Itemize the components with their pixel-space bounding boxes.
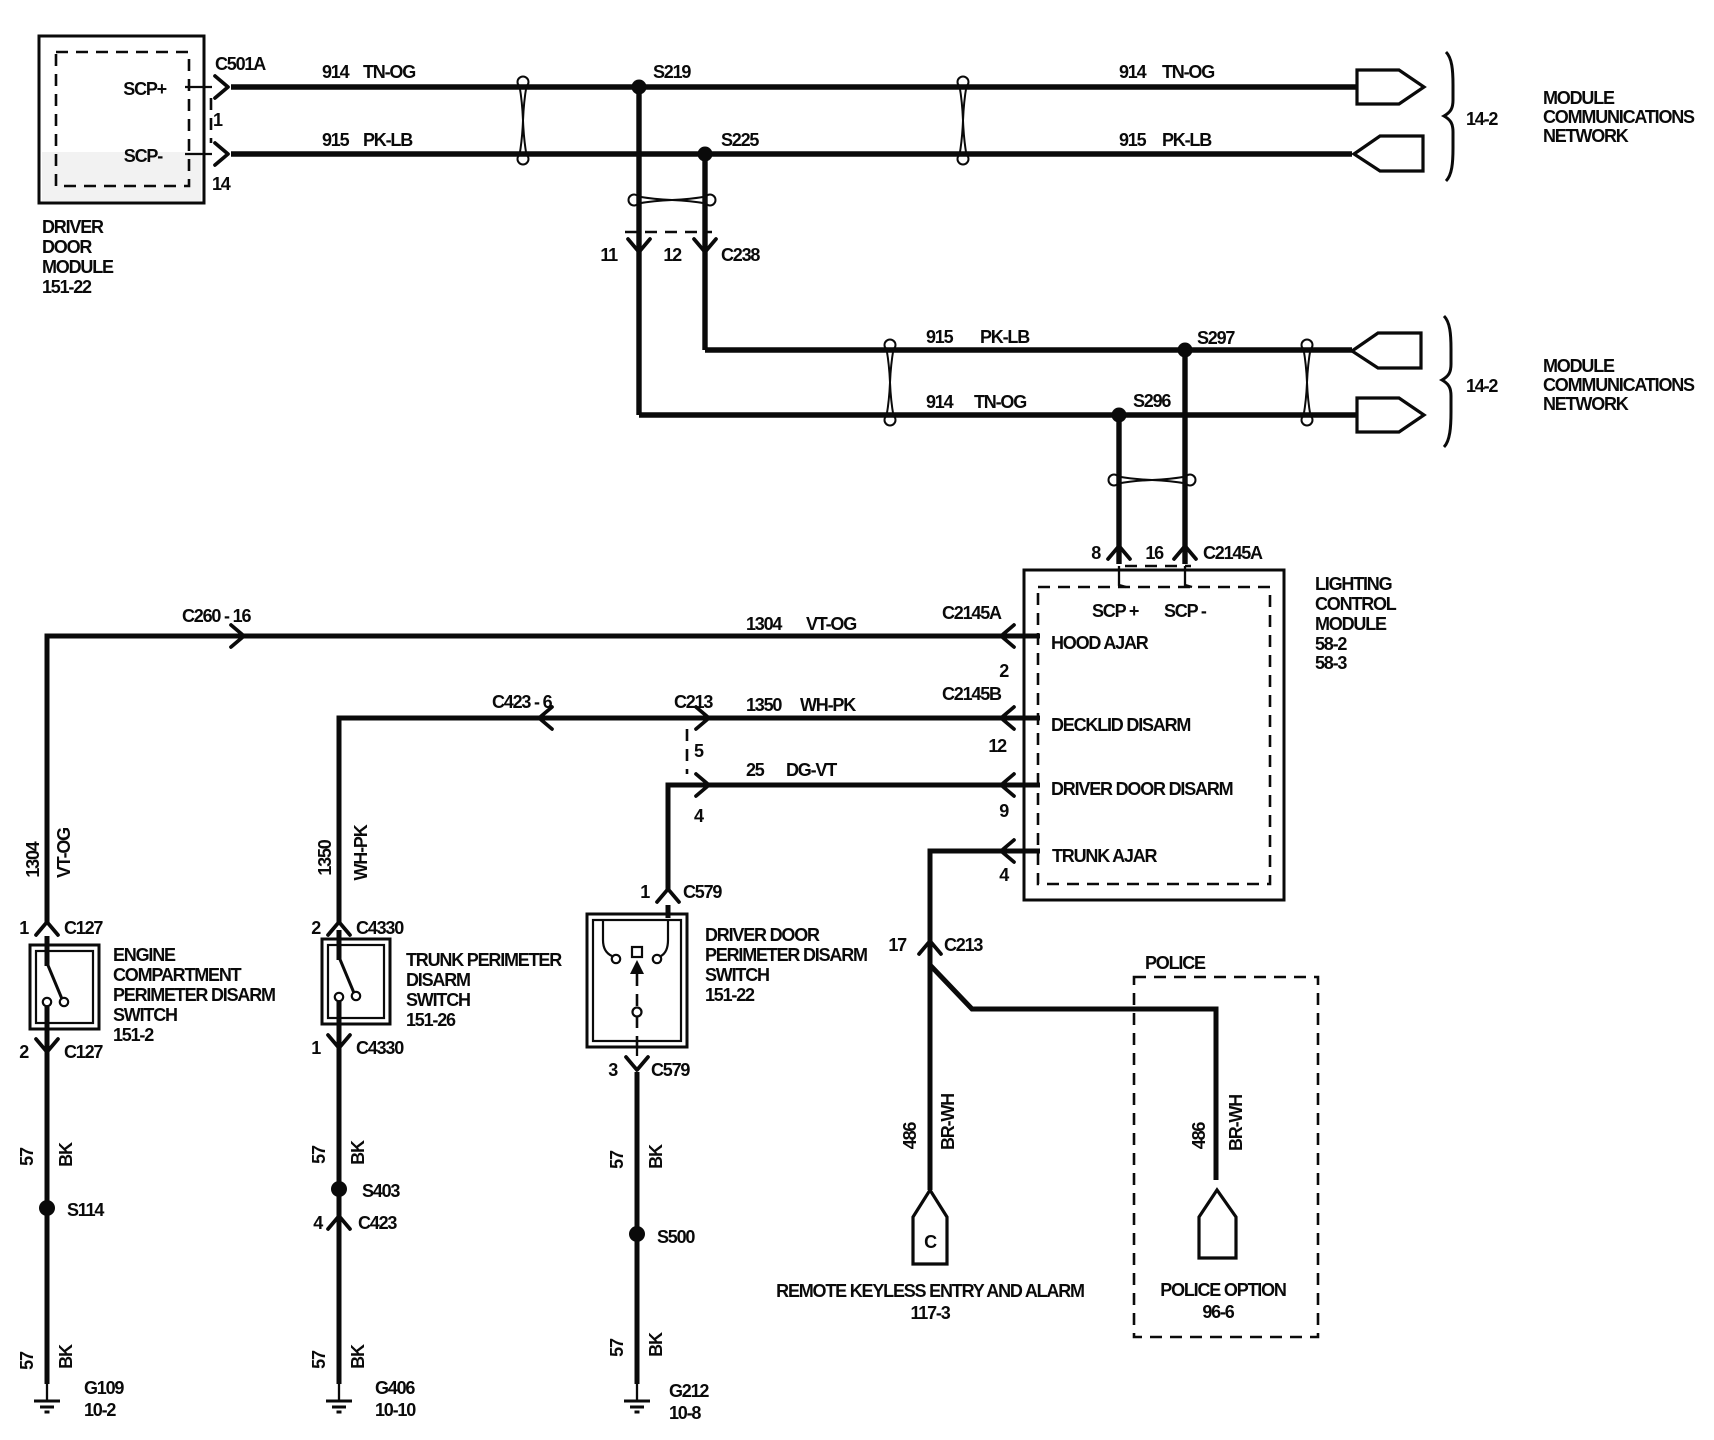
svg-text:HOOD AJAR: HOOD AJAR: [1051, 633, 1149, 653]
svg-text:C2145B: C2145B: [942, 684, 1002, 704]
svg-text:10-8: 10-8: [669, 1403, 701, 1423]
svg-text:PK-LB: PK-LB: [980, 327, 1030, 347]
svg-text:11: 11: [600, 245, 618, 265]
wire S296 down to pin 8: [1116, 415, 1121, 564]
svg-text:14: 14: [212, 174, 231, 194]
module communications network caption top: [1543, 88, 1695, 146]
wire 25 DG-VT: [668, 785, 1040, 891]
module communications network arrow out 914 top: [1357, 70, 1424, 104]
svg-text:915: 915: [1119, 130, 1147, 150]
wire from S219 down: [636, 87, 641, 415]
svg-text:PK-LB: PK-LB: [363, 130, 413, 150]
wire S297 down to pin 16: [1182, 350, 1187, 564]
svg-text:DRIVER: DRIVER: [42, 217, 104, 237]
connector arrow into LCM hood ajar: [1001, 625, 1014, 647]
lighting control module box: [1024, 570, 1284, 900]
driver door switch stem contact: [633, 1008, 642, 1017]
brace top: [1444, 52, 1453, 181]
svg-text:58-3: 58-3: [1315, 653, 1347, 673]
police option caption: [1160, 1280, 1286, 1322]
svg-text:57: 57: [309, 1350, 329, 1369]
splice S219: [632, 80, 647, 95]
connector arrow into LCM decklid: [1001, 707, 1014, 729]
svg-text:SCP -: SCP -: [1164, 601, 1207, 621]
wire 914 TN-OG top: [231, 84, 1357, 89]
svg-text:BR-WH: BR-WH: [938, 1094, 958, 1150]
wire stub SCP-: [185, 153, 212, 155]
svg-text:57: 57: [17, 1147, 37, 1166]
splice S297: [1178, 343, 1193, 358]
svg-text:17: 17: [888, 935, 907, 955]
svg-text:1: 1: [19, 918, 29, 938]
connector arrow C238 pin 11: [628, 239, 650, 252]
driver door module caption: [42, 217, 114, 297]
driver door switch stem to bottom: [636, 1016, 639, 1046]
svg-text:REMOTE KEYLESS ENTRY AND ALARM: REMOTE KEYLESS ENTRY AND ALARM: [776, 1281, 1084, 1301]
svg-text:BR-WH: BR-WH: [1226, 1095, 1246, 1151]
svg-text:BK: BK: [646, 1332, 666, 1357]
driver door switch dashed stem: [636, 974, 639, 1007]
svg-text:WH-PK: WH-PK: [800, 695, 856, 715]
svg-text:S219: S219: [653, 62, 691, 82]
trunk switch caption: [406, 950, 562, 1030]
connector arrow C127 pin 2: [36, 1039, 58, 1052]
connector arrow C213 pin 5: [696, 707, 709, 729]
svg-text:TRUNK PERIMETER: TRUNK PERIMETER: [406, 950, 562, 970]
connector arrow C213 pin 4: [696, 774, 709, 796]
svg-text:1304: 1304: [746, 614, 782, 634]
ground G212: [624, 1384, 650, 1412]
svg-text:PERIMETER DISARM: PERIMETER DISARM: [705, 945, 867, 965]
svg-text:151-22: 151-22: [42, 277, 92, 297]
svg-text:S403: S403: [362, 1181, 400, 1201]
connector C2145A dashed line: [1125, 565, 1191, 568]
svg-text:C213: C213: [944, 935, 983, 955]
svg-text:57: 57: [607, 1150, 627, 1169]
svg-text:BK: BK: [646, 1144, 666, 1169]
svg-text:MODULE: MODULE: [1543, 356, 1615, 376]
svg-text:151-2: 151-2: [113, 1025, 154, 1045]
svg-text:CONTROL: CONTROL: [1315, 594, 1397, 614]
trunk switch column wire top: [337, 930, 342, 960]
connector arrow C4330 pin 2: [328, 922, 350, 935]
svg-text:S296: S296: [1133, 391, 1171, 411]
svg-text:BK: BK: [348, 1140, 368, 1165]
svg-text:WH-PK: WH-PK: [351, 824, 371, 880]
svg-text:DRIVER DOOR DISARM: DRIVER DOOR DISARM: [1051, 779, 1233, 799]
svg-text:914: 914: [1119, 62, 1147, 82]
connector arrow C127 pin 1: [36, 922, 58, 935]
svg-text:1350: 1350: [746, 695, 782, 715]
ground G109: [34, 1384, 60, 1412]
police dashed box: [1134, 977, 1318, 1337]
connector arrow C423 pin 4: [328, 1216, 350, 1229]
svg-text:3: 3: [608, 1060, 618, 1080]
svg-text:9: 9: [999, 801, 1009, 821]
engine switch contact left: [43, 998, 51, 1006]
svg-text:POLICE: POLICE: [1145, 953, 1206, 973]
trunk switch contact left: [335, 993, 343, 1001]
svg-text:SCP+: SCP+: [123, 79, 166, 99]
twisted pair symbol T4: [885, 340, 896, 426]
svg-text:C: C: [924, 1232, 937, 1252]
ground G406: [326, 1384, 352, 1412]
engine compartment perimeter disarm switch box: [30, 945, 99, 1029]
svg-text:14-2: 14-2: [1466, 376, 1498, 396]
svg-text:G212: G212: [669, 1381, 709, 1401]
svg-text:1: 1: [640, 882, 650, 902]
ground G212 label: [669, 1381, 709, 1423]
svg-text:TN-OG: TN-OG: [974, 392, 1026, 412]
brace bottom: [1442, 316, 1451, 447]
svg-text:MODULE: MODULE: [1315, 614, 1387, 634]
svg-text:914: 914: [926, 392, 954, 412]
svg-text:151-26: 151-26: [406, 1010, 456, 1030]
svg-text:C213: C213: [674, 692, 713, 712]
police option pentagon: [1199, 1190, 1236, 1258]
svg-text:C127: C127: [64, 1042, 103, 1062]
svg-text:2: 2: [19, 1042, 29, 1062]
connector arrow C260: [231, 625, 244, 647]
svg-text:S225: S225: [721, 130, 759, 150]
ground G406 label: [375, 1378, 416, 1420]
splice S225: [698, 147, 713, 162]
splice S114: [39, 1200, 55, 1216]
svg-text:BK: BK: [348, 1344, 368, 1369]
svg-text:1: 1: [213, 110, 223, 130]
svg-text:96-6: 96-6: [1202, 1302, 1234, 1322]
svg-text:VT-OG: VT-OG: [54, 828, 74, 878]
engine switch lever: [47, 963, 62, 999]
connector arrow C2145A pin 16: [1174, 546, 1196, 559]
engine switch column wire top: [45, 936, 50, 966]
wire 914 TN-OG lower: [639, 412, 1357, 417]
svg-text:NETWORK: NETWORK: [1543, 394, 1629, 414]
trunk perimeter disarm switch box: [322, 939, 390, 1024]
svg-text:151-22: 151-22: [705, 985, 755, 1005]
svg-text:16: 16: [1145, 543, 1164, 563]
splice S403: [331, 1181, 347, 1197]
driver door module box: [39, 36, 204, 203]
driver door switch right contact: [653, 955, 661, 963]
svg-text:S297: S297: [1197, 328, 1235, 348]
connector arrow C579 pin 3: [626, 1057, 648, 1070]
driver door switch actuator arrow: [630, 960, 644, 974]
connector arrow into LCM trunk ajar: [1001, 840, 1014, 862]
svg-text:2: 2: [999, 661, 1009, 681]
svg-text:TRUNK AJAR: TRUNK AJAR: [1052, 846, 1158, 866]
svg-text:TN-OG: TN-OG: [1162, 62, 1214, 82]
svg-text:DOOR: DOOR: [42, 237, 92, 257]
svg-text:COMMUNICATIONS: COMMUNICATIONS: [1543, 375, 1695, 395]
svg-text:PK-LB: PK-LB: [1162, 130, 1212, 150]
svg-text:C127: C127: [64, 918, 103, 938]
svg-text:LIGHTING: LIGHTING: [1315, 574, 1392, 594]
svg-text:C423: C423: [358, 1213, 397, 1233]
svg-text:G406: G406: [375, 1378, 415, 1398]
driver door switch wire top: [666, 905, 671, 918]
svg-text:14-2: 14-2: [1466, 109, 1498, 129]
svg-text:4: 4: [313, 1213, 323, 1233]
svg-text:DECKLID DISARM: DECKLID DISARM: [1051, 715, 1190, 735]
svg-text:25: 25: [746, 760, 765, 780]
svg-text:POLICE OPTION: POLICE OPTION: [1160, 1280, 1286, 1300]
svg-text:12: 12: [988, 736, 1007, 756]
lighting control module caption: [1315, 574, 1397, 673]
svg-text:4: 4: [694, 806, 704, 826]
svg-text:C238: C238: [721, 245, 760, 265]
svg-text:SWITCH: SWITCH: [705, 965, 769, 985]
wire trunk switch to ground: [337, 1001, 342, 1384]
svg-text:4: 4: [999, 865, 1009, 885]
wire 915 PK-LB top: [231, 151, 1352, 156]
remote keyless caption: [776, 1281, 1084, 1323]
connector arrow C238 pin 12: [694, 239, 716, 252]
engine switch contact right: [60, 998, 68, 1006]
connector arrow C579 pin 1: [657, 889, 679, 902]
svg-text:COMPARTMENT: COMPARTMENT: [113, 965, 242, 985]
svg-text:57: 57: [17, 1351, 37, 1370]
svg-text:C260 - 16: C260 - 16: [182, 606, 251, 626]
svg-text:486: 486: [1189, 1122, 1209, 1150]
svg-text:1350: 1350: [315, 839, 335, 875]
svg-text:SCP +: SCP +: [1092, 601, 1139, 621]
svg-text:BK: BK: [56, 1142, 76, 1167]
trunk switch contact right: [352, 992, 360, 1000]
connector C remote keyless pentagon: [913, 1190, 947, 1264]
svg-text:C423 - 6: C423 - 6: [492, 692, 553, 712]
svg-text:10-2: 10-2: [84, 1400, 116, 1420]
svg-text:SWITCH: SWITCH: [406, 990, 470, 1010]
svg-text:BK: BK: [56, 1344, 76, 1369]
pin stub SCP- inside: [1185, 566, 1192, 587]
svg-text:C4330: C4330: [356, 1038, 404, 1058]
svg-text:S114: S114: [67, 1200, 104, 1220]
twisted pair symbol T3: [629, 195, 716, 206]
svg-text:C579: C579: [683, 882, 722, 902]
connector arrow C213 pin 17: [919, 941, 941, 954]
svg-text:12: 12: [663, 245, 682, 265]
trunk switch lever: [339, 957, 354, 993]
module communications network caption bottom: [1543, 356, 1695, 414]
connector arrow C2145A pin 8: [1108, 546, 1130, 559]
svg-text:915: 915: [322, 130, 350, 150]
svg-text:DRIVER DOOR: DRIVER DOOR: [705, 925, 820, 945]
svg-text:57: 57: [309, 1145, 329, 1164]
svg-text:58-2: 58-2: [1315, 634, 1347, 654]
wire stub SCP+: [185, 86, 212, 88]
connector C213 dashed divider: [686, 729, 689, 774]
svg-text:COMMUNICATIONS: COMMUNICATIONS: [1543, 107, 1695, 127]
svg-text:G109: G109: [84, 1378, 124, 1398]
connector arrow C4330 pin 1: [328, 1035, 350, 1048]
driver door switch left contact: [612, 955, 620, 963]
svg-text:10-10: 10-10: [375, 1400, 416, 1420]
twisted pair symbol T2: [958, 77, 969, 165]
svg-text:PERIMETER DISARM: PERIMETER DISARM: [113, 985, 275, 1005]
svg-text:1304: 1304: [23, 841, 43, 877]
svg-text:TN-OG: TN-OG: [363, 62, 415, 82]
svg-text:117-3: 117-3: [910, 1303, 950, 1323]
svg-text:2: 2: [311, 918, 321, 938]
wire engine switch to ground: [45, 1006, 50, 1384]
svg-text:C4330: C4330: [356, 918, 404, 938]
twisted pair symbol T1: [518, 77, 529, 165]
driver door switch actuator square: [632, 947, 642, 957]
wire from S225 down: [702, 154, 707, 350]
driver door switch left wire: [603, 920, 612, 956]
svg-text:8: 8: [1091, 543, 1101, 563]
svg-text:C2145A: C2145A: [1203, 543, 1263, 563]
connector arrow C501A pin 14: [215, 143, 228, 165]
splice S296: [1112, 408, 1127, 423]
pin stub SCP+ inside: [1119, 566, 1126, 587]
svg-text:486: 486: [900, 1122, 920, 1150]
svg-text:DISARM: DISARM: [406, 970, 470, 990]
svg-text:S500: S500: [657, 1227, 695, 1247]
svg-text:C579: C579: [651, 1060, 690, 1080]
svg-text:1: 1: [311, 1038, 321, 1058]
svg-text:5: 5: [694, 741, 704, 761]
wire trunk ajar: [930, 851, 1040, 1190]
connector arrow into LCM driver door disarm: [1001, 774, 1014, 796]
svg-text:SWITCH: SWITCH: [113, 1005, 177, 1025]
driver door switch right wire: [661, 920, 668, 956]
svg-text:57: 57: [607, 1338, 627, 1357]
engine switch caption: [113, 945, 275, 1045]
svg-text:MODULE: MODULE: [1543, 88, 1615, 108]
svg-text:914: 914: [322, 62, 350, 82]
module communications network arrow out 914 lower: [1357, 398, 1424, 432]
module communications network arrow in 915 lower: [1352, 333, 1421, 368]
wire 1350 WH-PK: [339, 718, 1040, 922]
svg-text:NETWORK: NETWORK: [1543, 126, 1629, 146]
wire 1304 VT-OG: [47, 636, 1040, 922]
svg-text:ENGINE: ENGINE: [113, 945, 176, 965]
wire driver door switch to ground: [635, 1072, 640, 1384]
svg-text:DG-VT: DG-VT: [786, 760, 837, 780]
svg-text:MODULE: MODULE: [42, 257, 114, 277]
svg-text:C501A: C501A: [215, 54, 266, 74]
twisted pair symbol T6: [1109, 475, 1196, 486]
connector arrow C423: [539, 707, 552, 729]
svg-text:C2145A: C2145A: [942, 603, 1002, 623]
svg-text:915: 915: [926, 327, 954, 347]
driver door switch caption: [705, 925, 867, 1005]
wire 486 branch to police: [930, 965, 1216, 1180]
svg-text:SCP-: SCP-: [124, 146, 163, 166]
wire 915 PK-LB lower: [705, 347, 1352, 352]
twisted pair symbol T5: [1302, 340, 1313, 426]
svg-text:VT-OG: VT-OG: [806, 614, 856, 634]
driver door perimeter disarm switch box: [587, 914, 687, 1047]
module communications network arrow in 915 top: [1354, 136, 1423, 171]
ground G109 label: [84, 1378, 124, 1420]
connector dashed divider C501A: [210, 98, 213, 143]
connector C238 dashed line: [625, 231, 712, 234]
splice S500: [629, 1226, 645, 1242]
connector arrow C501A pin 1: [215, 76, 228, 98]
